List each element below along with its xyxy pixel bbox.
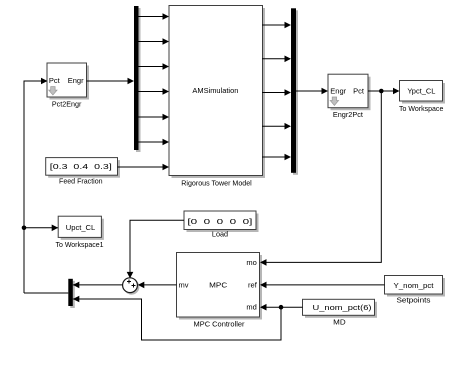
svg-text:md: md (246, 303, 256, 312)
svg-text:Setpoints: Setpoints (397, 295, 431, 304)
svg-text:MPC Controller: MPC Controller (194, 320, 245, 329)
svg-text:Pct2Engr: Pct2Engr (52, 100, 82, 109)
svg-text:U_nom_pct(6): U_nom_pct(6) (313, 303, 373, 312)
svg-text:Rigorous Tower Model: Rigorous Tower Model (181, 179, 252, 188)
svg-text:Engr: Engr (68, 76, 84, 85)
svg-text:To Workspace: To Workspace (399, 104, 443, 113)
svg-text:To Workspace1: To Workspace1 (56, 240, 104, 249)
svg-text:Y_nom_pct: Y_nom_pct (394, 281, 435, 290)
svg-text:Pct: Pct (353, 86, 365, 95)
svg-text:Upct_CL: Upct_CL (66, 223, 96, 232)
svg-text:MPC: MPC (209, 281, 228, 290)
svg-text:[0 0 0 0 0]: [0 0 0 0 0] (187, 217, 252, 226)
svg-text:Pct: Pct (49, 76, 61, 85)
svg-text:Ypct_CL: Ypct_CL (407, 86, 435, 95)
svg-text:mo: mo (246, 258, 256, 267)
svg-text:Engr: Engr (330, 86, 346, 95)
svg-text:mv: mv (179, 281, 189, 290)
svg-text:Load: Load (212, 229, 228, 238)
svg-text:MD: MD (333, 318, 346, 327)
svg-text:AMSimulation: AMSimulation (192, 86, 238, 95)
svg-text:Engr2Pct: Engr2Pct (333, 110, 364, 119)
svg-text:Feed Fraction: Feed Fraction (59, 177, 103, 186)
svg-text:ref: ref (248, 281, 258, 290)
svg-text:[0.3 0.4 0.3]: [0.3 0.4 0.3] (50, 162, 112, 171)
